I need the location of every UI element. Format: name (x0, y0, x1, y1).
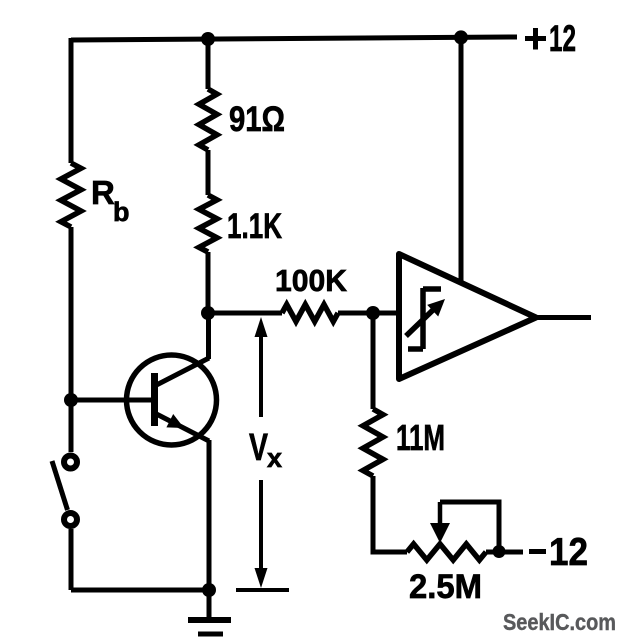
resistor Rb (61, 163, 81, 227)
label +12 (525, 18, 576, 59)
wire left vertical upper (69, 38, 74, 163)
label Vx with measurement arrows (236, 317, 289, 590)
svg-text:SeekIC.com: SeekIC.com (503, 609, 616, 635)
svg-text:12: 12 (549, 18, 576, 59)
wire left vertical middle (69, 227, 74, 400)
node base junction (64, 393, 78, 407)
svg-text:12: 12 (549, 531, 588, 574)
wire node to 100K (208, 311, 282, 316)
wire middle vertical top (206, 39, 211, 89)
wire left vertical to switch (69, 400, 74, 452)
node bottom junction (202, 583, 216, 597)
switch S1 (52, 456, 77, 527)
wire collector stub (206, 313, 211, 359)
svg-text:V: V (249, 427, 268, 469)
wire 100K to op-amp (338, 311, 399, 316)
svg-text:x: x (267, 443, 282, 473)
svg-text:100K: 100K (275, 263, 348, 298)
wire pot to -12 (486, 550, 523, 555)
svg-text:R: R (91, 174, 115, 211)
label Rb (91, 174, 130, 227)
transistor Q1 (71, 355, 217, 445)
resistor 11M (363, 409, 383, 476)
wire left vertical bottom (69, 529, 74, 590)
potentiometer 2.5M (407, 502, 499, 560)
svg-text:b: b (113, 197, 130, 227)
svg-text:11M: 11M (396, 417, 445, 458)
resistor R 91 ohm (199, 89, 217, 150)
label -12 (529, 531, 588, 574)
wire emitter vertical (207, 440, 212, 590)
wire 11M to pot (373, 476, 407, 552)
node top-right junction (454, 30, 468, 44)
svg-text:91Ω: 91Ω (229, 100, 285, 139)
wire 11M branch vertical (371, 313, 376, 409)
ground (188, 590, 231, 634)
wire top rail (71, 37, 517, 40)
wire middle vertical to node (206, 252, 211, 313)
op-amp U1 (399, 254, 536, 379)
svg-text:1.1K: 1.1K (227, 207, 282, 246)
wire bottom rail (71, 588, 209, 593)
node pot junction (493, 545, 506, 558)
wire +12 power to op-amp (459, 37, 464, 283)
node op-amp input junction (366, 306, 380, 320)
resistor 1.1K (199, 195, 217, 252)
wire between resistors (206, 150, 211, 195)
node top-middle junction (201, 32, 215, 46)
wire op-amp output (536, 315, 591, 320)
svg-text:2.5M: 2.5M (409, 568, 482, 606)
resistor 100K (282, 305, 338, 322)
node Vx junction (201, 306, 215, 320)
